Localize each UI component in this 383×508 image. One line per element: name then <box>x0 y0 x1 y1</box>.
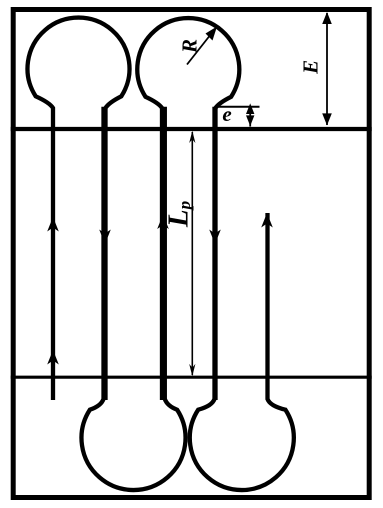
top keyhole slot 1 (circle + stem) <box>28 18 130 400</box>
Lp dimension top arrowhead <box>189 131 195 143</box>
Lp dimension line <box>191 132 193 375</box>
up arrowhead on line x=53 (upper) <box>47 217 59 232</box>
Lp dimension bottom arrowhead <box>189 364 195 376</box>
E dimension double arrow <box>326 13 328 125</box>
svg-text:R: R <box>178 39 202 54</box>
e overline <box>217 106 260 108</box>
svg-text:E: E <box>299 60 323 75</box>
R radius arrow <box>187 32 213 65</box>
bottom keyhole slot B (circle + stem) <box>190 107 294 490</box>
down arrowhead on line x=215 <box>209 230 221 245</box>
top keyhole slot 2 (circle + stem) <box>137 18 239 400</box>
up arrowhead on line x=163 <box>157 215 169 230</box>
down arrowhead on line x=105.5 <box>99 230 111 245</box>
up arrowhead on line x=267 <box>261 213 273 228</box>
bottom keyhole slot A (circle + stem) <box>82 107 186 490</box>
up arrowhead on line x=53 (lower) <box>47 350 59 365</box>
e dimension double arrow <box>249 106 251 127</box>
svg-text:e: e <box>222 102 231 126</box>
bottom plate edge line (horizontal line 2) <box>11 376 372 379</box>
top plate edge line (horizontal line 1) <box>11 127 372 131</box>
